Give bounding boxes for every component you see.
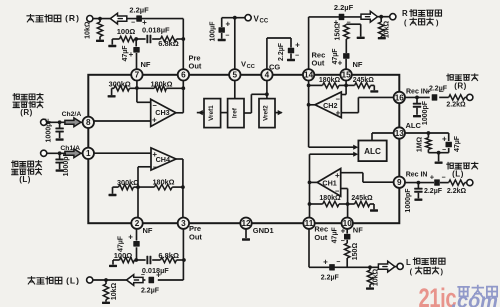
svg-text:.com: .com [452, 290, 498, 307]
svg-text:Vref2: Vref2 [263, 105, 270, 121]
svg-text:−: − [341, 238, 345, 245]
svg-text:Ch1/A: Ch1/A [60, 145, 80, 152]
svg-text:−: − [225, 33, 229, 40]
svg-text:10: 10 [343, 219, 353, 228]
svg-text:Rec IN: Rec IN [406, 171, 428, 178]
svg-text:CH3: CH3 [155, 108, 169, 117]
svg-text:47µF: 47µF [332, 227, 339, 244]
svg-text:−: − [295, 52, 299, 59]
svg-text:245kΩ: 245kΩ [351, 195, 373, 202]
svg-text:Out: Out [189, 233, 202, 242]
svg-text:−: − [335, 186, 340, 195]
svg-text:12: 12 [241, 219, 251, 228]
svg-text:10kΩ: 10kΩ [372, 268, 379, 286]
svg-text:−: − [346, 20, 350, 27]
svg-text:180kΩ: 180kΩ [319, 77, 341, 84]
svg-text:Rec IN: Rec IN [406, 88, 428, 95]
svg-text:ALC: ALC [364, 147, 381, 156]
svg-text:(R): (R) [20, 108, 33, 117]
svg-text:6.8kΩ: 6.8kΩ [158, 251, 179, 260]
svg-text:2.2µF: 2.2µF [141, 288, 160, 295]
svg-text:8: 8 [86, 118, 91, 127]
svg-text:−: − [131, 20, 135, 27]
svg-text:+: + [128, 233, 133, 242]
svg-text:1000pF: 1000pF [63, 152, 70, 177]
svg-text:3: 3 [181, 219, 186, 228]
svg-text:1000pF: 1000pF [46, 118, 53, 143]
svg-text:(R): (R) [65, 13, 80, 23]
svg-text:ALC: ALC [406, 121, 422, 130]
svg-text:2.2kΩ: 2.2kΩ [446, 102, 466, 109]
svg-text:Out: Out [312, 58, 325, 67]
svg-text:2.2µF: 2.2µF [278, 42, 285, 61]
svg-text:(L): (L) [66, 275, 80, 285]
svg-text:150Ω: 150Ω [334, 23, 341, 41]
svg-text:0.018µF: 0.018µF [142, 266, 169, 275]
svg-text:Out: Out [189, 61, 202, 70]
svg-text:100Ω: 100Ω [117, 27, 136, 36]
svg-text:−: − [441, 174, 445, 181]
svg-text:47µF: 47µF [454, 135, 461, 152]
svg-text:+: + [442, 135, 447, 144]
svg-text:300kΩ: 300kΩ [109, 79, 131, 88]
svg-text:1000pF: 1000pF [422, 100, 429, 125]
svg-text:245kΩ: 245kΩ [353, 77, 375, 84]
svg-text:+: + [225, 20, 230, 29]
svg-text:0.018µF: 0.018µF [142, 26, 170, 35]
svg-text:2.2µF: 2.2µF [429, 86, 448, 93]
svg-text:(R): (R) [454, 81, 467, 90]
svg-text:2.2µF: 2.2µF [129, 5, 149, 14]
svg-text:GND1: GND1 [253, 226, 274, 235]
svg-text:+: + [295, 40, 300, 49]
svg-text:2.2kΩ: 2.2kΩ [447, 188, 467, 195]
svg-text:6.8kΩ: 6.8kΩ [158, 39, 179, 48]
svg-text:47µF: 47µF [122, 45, 129, 62]
svg-text:14: 14 [304, 71, 314, 80]
svg-text:300kΩ: 300kΩ [117, 178, 139, 187]
svg-text:−: − [336, 259, 340, 266]
svg-text:R: R [402, 9, 408, 18]
svg-text:11: 11 [305, 219, 314, 228]
svg-text:180kΩ: 180kΩ [152, 177, 174, 186]
svg-text:10kΩ: 10kΩ [84, 21, 91, 39]
svg-text:5: 5 [233, 71, 238, 80]
svg-text:Iref: Iref [231, 107, 238, 118]
svg-text:6: 6 [181, 71, 186, 80]
svg-text:CH2: CH2 [323, 101, 337, 110]
svg-text:CC: CC [247, 64, 255, 70]
svg-text:4: 4 [265, 71, 270, 80]
svg-text:Vref1: Vref1 [208, 105, 215, 121]
svg-text:9: 9 [397, 178, 402, 187]
svg-text:150Ω: 150Ω [352, 243, 359, 261]
svg-text:CH4: CH4 [156, 155, 170, 164]
svg-text:NF: NF [141, 60, 151, 69]
svg-text:NF: NF [353, 226, 363, 235]
svg-text:Ch2/A: Ch2/A [62, 111, 82, 118]
svg-text:−: − [442, 147, 446, 154]
svg-text:1: 1 [86, 149, 91, 158]
svg-text:NF: NF [143, 226, 153, 235]
svg-text:+: + [129, 50, 134, 59]
svg-text:10kΩ: 10kΩ [383, 20, 390, 38]
svg-text:NF: NF [353, 60, 363, 69]
svg-text:15: 15 [342, 71, 352, 80]
svg-text:180kΩ: 180kΩ [319, 195, 341, 202]
svg-text:47µF: 47µF [118, 235, 125, 252]
svg-text:2.2µF: 2.2µF [334, 3, 354, 12]
svg-text:16: 16 [395, 93, 405, 102]
svg-text:2.2µF: 2.2µF [321, 274, 340, 281]
svg-text:100µF: 100µF [209, 21, 216, 42]
svg-text:CH1: CH1 [322, 179, 336, 188]
svg-text:Out: Out [314, 233, 327, 242]
svg-text:180kΩ: 180kΩ [150, 79, 172, 88]
svg-text:1MΩ: 1MΩ [417, 136, 424, 152]
svg-text:(L): (L) [452, 170, 464, 179]
svg-text:L: L [406, 258, 411, 267]
svg-text:2.2µF: 2.2µF [424, 188, 443, 195]
svg-text:7: 7 [135, 71, 140, 80]
svg-text:47µF: 47µF [332, 48, 339, 65]
svg-text:2: 2 [135, 219, 140, 228]
svg-text:13: 13 [395, 129, 405, 138]
svg-text:−: − [439, 89, 443, 96]
svg-text:CC: CC [260, 19, 269, 25]
svg-text:+: + [430, 173, 435, 182]
svg-text:(L): (L) [19, 175, 31, 184]
svg-text:1000pF: 1000pF [405, 188, 412, 213]
svg-text:10kΩ: 10kΩ [111, 282, 118, 300]
svg-text:+: + [323, 257, 328, 266]
